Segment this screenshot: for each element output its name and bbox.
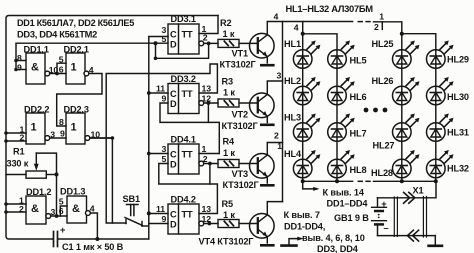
svg-text:К выв. 7: К выв. 7 (284, 210, 320, 220)
svg-text:TT: TT (182, 30, 193, 40)
node DD2.1 input junction (55, 72, 59, 76)
wire DD2.2 pin 2 (6, 140, 26, 142)
svg-text:C: C (170, 210, 177, 220)
svg-text:HL27: HL27 (373, 141, 395, 151)
svg-text:КТ3102Г: КТ3102Г (223, 180, 260, 190)
flip-flop DD3.2 (168, 84, 199, 114)
wire X1 column line (282, 22, 284, 202)
resistor R4 1k (218, 160, 258, 168)
svg-text:9: 9 (60, 129, 65, 139)
gate DD2.3 (66, 113, 85, 144)
wire DD2.2 pin 1 (6, 132, 26, 134)
svg-text:VT2: VT2 (232, 110, 248, 120)
LED HL2 (293, 77, 320, 105)
node DD3.1 pin2 junction (207, 42, 211, 46)
LED HL31 (427, 114, 454, 142)
svg-text:HL28: HL28 (371, 168, 393, 178)
svg-text:1 к: 1 к (223, 210, 235, 220)
node clock / SB1 junction (147, 211, 151, 215)
flip-flop DD3.1 (168, 24, 199, 54)
wire DD2.1 output to DD2.3 pin8 (57, 74, 102, 127)
wire LED column 2 (336, 50, 338, 181)
svg-text:КТ3102Г: КТ3102Г (222, 121, 259, 131)
wire branch to column 4 (402, 34, 436, 50)
svg-text:5: 5 (59, 197, 64, 207)
connector X1 contact minus (407, 230, 418, 241)
wire DD3.1 pin1 Q to top rail (199, 16, 218, 34)
svg-text:HL25: HL25 (372, 39, 394, 49)
svg-text:TT: TT (182, 210, 193, 220)
node DD1.1 pin8 tap (14, 59, 18, 63)
wire DD3.1 pin2 Q-bar to R2 (204, 42, 218, 44)
wire DD1.2 output to DD1.3 pin6 (51, 215, 67, 217)
node DD1.3 output to bottom rail (95, 237, 99, 241)
svg-text:DD1.1: DD1.1 (24, 44, 49, 54)
wire supply arrow K vyv 14 (303, 181, 316, 189)
resistor R2 1k (218, 39, 258, 47)
transistor VT3 (249, 154, 274, 186)
wire DD4.1 pin3 C (149, 153, 168, 155)
transistor VT2 (249, 93, 274, 125)
wire toggle loop DD3.1 (156, 43, 209, 58)
svg-text:DD4.1: DD4.1 (171, 135, 196, 145)
svg-text:DD3, DD4 К561ТМ2: DD3, DD4 К561ТМ2 (17, 29, 97, 40)
svg-text:10: 10 (91, 130, 101, 140)
flip-flop DD4.1 (168, 144, 199, 174)
wire top bus dashes (358, 21, 370, 23)
svg-text:2: 2 (19, 204, 24, 214)
wire DD1.1 pin 9 (16, 69, 26, 71)
wire DD3.2 pin9 D from DD4.1 Q (160, 103, 219, 154)
svg-text:HL7: HL7 (350, 129, 367, 139)
gate DD1.2 (26, 196, 46, 224)
node clock tap DD4.1 (147, 152, 151, 156)
svg-text:8: 8 (17, 53, 22, 63)
wire DD2.3 output (90, 137, 113, 139)
node DD3.2 pin12 junction (207, 101, 211, 105)
svg-text:DD1.3: DD1.3 (60, 187, 85, 197)
LED HL26 (393, 77, 420, 105)
svg-text:DD2.2: DD2.2 (24, 104, 49, 114)
LED HL25 (393, 41, 420, 69)
wire bottom bus left segment (303, 180, 353, 182)
svg-text:D: D (170, 40, 177, 50)
svg-text:GB1 9 В: GB1 9 В (334, 213, 369, 223)
svg-text:DD3.2: DD3.2 (171, 74, 196, 84)
wire LED column 1 (302, 22, 304, 182)
LED HL29 (427, 41, 454, 69)
svg-text:C: C (170, 150, 177, 160)
wire DD4.1 pin5 D toggle loop (159, 164, 210, 185)
node clock tap DD3.2 (147, 91, 151, 95)
svg-text:HL6: HL6 (350, 92, 367, 102)
svg-text:1: 1 (277, 141, 282, 151)
LED HL28 (393, 150, 420, 178)
svg-text:1 к: 1 к (223, 148, 235, 158)
svg-text:2: 2 (20, 133, 25, 143)
svg-text:330 к: 330 к (7, 159, 29, 169)
svg-text:HL3: HL3 (284, 113, 301, 123)
wire DD4.2 pin12 Q-bar to R5 (204, 223, 218, 225)
svg-text:3: 3 (162, 144, 167, 154)
svg-text:4: 4 (294, 23, 299, 33)
node DD4.2 pin12 junction (207, 222, 211, 226)
wire top bus right segment (374, 22, 402, 34)
LED HL5 (328, 41, 355, 69)
svg-text:DD2.3: DD2.3 (64, 104, 89, 114)
connector X1 mating lines (394, 197, 426, 238)
svg-text:9: 9 (162, 94, 167, 104)
node bottom bus col2 (335, 179, 339, 183)
svg-text:3: 3 (50, 130, 55, 140)
LED HL30 (427, 77, 454, 105)
wire VT3 collector to X1 line (267, 143, 282, 156)
resistor R3 1k (218, 99, 258, 107)
svg-text:1: 1 (379, 12, 384, 22)
svg-text:6: 6 (59, 65, 64, 75)
svg-text:5: 5 (162, 154, 167, 164)
wire X1 minus lead (378, 235, 436, 237)
node DD1.2 out / R1 junction (55, 214, 59, 218)
svg-text:HL8: HL8 (350, 165, 367, 175)
svg-text:2: 2 (203, 33, 208, 43)
wire DD2.1 pin 5 stub (57, 63, 66, 73)
svg-text:DD1-DD4,: DD1-DD4, (284, 222, 325, 232)
svg-text:HL30: HL30 (447, 92, 469, 102)
LED HL8 (328, 150, 355, 178)
svg-text:D: D (170, 99, 177, 109)
wire DD4.2 pin11 C (149, 213, 168, 215)
svg-text:1 к: 1 к (223, 29, 235, 39)
wire DD3.2 Q-bar riser to D line (207, 103, 209, 122)
LED HL3 (293, 114, 320, 142)
wire X1 plus lead (378, 181, 437, 198)
transistor VT4 (249, 214, 274, 246)
svg-text:DD1–DD4: DD1–DD4 (327, 199, 369, 209)
wire DD1.3 pin 5 stub (60, 206, 67, 216)
wire DD4.2 pin9 D (149, 223, 168, 225)
node DD1.2 pin2 tap (4, 210, 8, 214)
wire clock bus vertical (149, 37, 168, 240)
svg-text:DD1 К561ЛА7, DD2 К561ЛЕ5: DD1 К561ЛА7, DD2 К561ЛЕ5 (17, 17, 134, 28)
ellipsis dots between columns (364, 108, 388, 113)
svg-text:DD1.2: DD1.2 (26, 187, 51, 197)
svg-text:C: C (170, 30, 177, 40)
svg-text:VT1: VT1 (232, 49, 248, 59)
wire DD1.3 output to C1 node (90, 213, 98, 239)
svg-text:DD3, DD4: DD3, DD4 (317, 244, 359, 253)
svg-text:1: 1 (71, 62, 77, 74)
LED HL7 (328, 114, 355, 142)
node DD1.1 pin9 tap (14, 68, 18, 72)
svg-text:1: 1 (31, 122, 37, 134)
svg-text:1: 1 (202, 144, 207, 154)
svg-text:R5: R5 (222, 199, 233, 209)
LED HL4 (293, 150, 320, 178)
wire stub pin2 (381, 22, 383, 30)
battery GB1 (372, 198, 387, 236)
wire DD1.2 pin 2 (6, 211, 26, 213)
LED HL1 (293, 41, 320, 69)
svg-text:HL2: HL2 (284, 76, 301, 86)
svg-text:VT3: VT3 (232, 169, 248, 179)
wire D-line to DD3.1 pin5 (16, 43, 168, 69)
node bottom bus col3 (400, 179, 404, 183)
svg-text:R3: R3 (222, 77, 233, 87)
node column1 branch (301, 32, 305, 36)
svg-text:выв. 4, 6, 8, 10: выв. 4, 6, 8, 10 (302, 233, 365, 243)
svg-text:2: 2 (203, 154, 208, 164)
node DD2.2 pin1 tap (4, 131, 8, 135)
svg-text:11: 11 (156, 204, 165, 214)
wire DD3.2 pin11 C (149, 92, 168, 94)
svg-text:TT: TT (182, 150, 193, 160)
svg-text:4: 4 (90, 204, 95, 214)
wire R1 to DD1.2 output node (56, 175, 58, 217)
svg-text:5: 5 (59, 55, 64, 65)
svg-text:&: & (31, 203, 39, 215)
gate DD1.3 (67, 196, 87, 223)
LED HL6 (328, 77, 355, 105)
svg-text:13: 13 (202, 84, 212, 94)
ground left common arrow (289, 239, 300, 245)
gate DD1.1 (26, 53, 45, 84)
wire VT1 collector to LED bus (267, 22, 352, 35)
svg-text:HL4: HL4 (284, 149, 302, 159)
svg-text:9: 9 (17, 63, 22, 73)
svg-text:VT4 КТ3102Г: VT4 КТ3102Г (199, 237, 255, 247)
wire VT4 collector to X1 line (267, 202, 282, 215)
capacitor C1 (54, 232, 58, 247)
svg-text:HL1–HL32 АЛ307БМ: HL1–HL32 АЛ307БМ (286, 3, 374, 14)
wire LED column 3 (401, 34, 403, 182)
svg-text:3: 3 (277, 71, 282, 81)
gate DD2.2 (26, 113, 45, 144)
LED HL32 (427, 150, 454, 178)
wire DD2.2 output to DD2.3 pin9 (50, 137, 66, 139)
svg-text:X1: X1 (413, 186, 424, 196)
wire bottom bus right segment (374, 180, 436, 182)
svg-text:1: 1 (71, 122, 77, 134)
pushbutton SB1 (125, 205, 149, 227)
node DD2.2 pin2 tap (4, 139, 8, 143)
svg-text:2: 2 (374, 22, 379, 32)
svg-text:КТ3102Г: КТ3102Г (220, 60, 257, 70)
node DD4.1 pin2 junction (208, 162, 212, 166)
svg-text:+: + (60, 225, 65, 235)
wire LED column 4 (435, 50, 437, 181)
svg-text:6: 6 (59, 206, 64, 216)
svg-text:11: 11 (156, 84, 165, 94)
node bottom bus col1 (301, 179, 305, 183)
svg-text:8: 8 (59, 117, 64, 127)
wire bottom rail right of C1 (58, 238, 149, 240)
wire DD1.1 output to DD2.1 pin6 (50, 73, 66, 75)
node bottom bus col4 (434, 179, 438, 183)
svg-text:+: + (381, 199, 386, 209)
node R1 wiper junction (55, 173, 59, 177)
node column3 branch (400, 32, 404, 36)
svg-text:–: – (384, 223, 389, 233)
svg-text:HL1: HL1 (284, 39, 301, 49)
wire DD2.3 output down to SB1 (89, 138, 113, 223)
svg-text:DD2.1: DD2.1 (64, 44, 89, 54)
wire VT2 collector to X1 line (267, 81, 282, 95)
wire DD4.1 pin1 Q (199, 153, 219, 155)
svg-text:R4: R4 (223, 137, 235, 147)
svg-text:HL31: HL31 (447, 128, 469, 138)
svg-text:TT: TT (182, 89, 193, 99)
svg-text:HL32: HL32 (447, 164, 469, 174)
svg-text:К выв. 14: К выв. 14 (323, 188, 365, 198)
svg-text:4: 4 (89, 65, 94, 75)
svg-text:C: C (170, 89, 177, 99)
connector X1 contact plus (404, 192, 415, 203)
svg-text:&: & (72, 203, 80, 215)
wire DD1.2 pin 1 (6, 203, 26, 205)
svg-text:D: D (170, 220, 177, 230)
svg-text:D: D (170, 160, 177, 170)
ground right (434, 236, 436, 245)
svg-text:R2: R2 (220, 18, 231, 28)
wire bottom bus dashes (358, 180, 370, 182)
resistor R5 1k (218, 220, 258, 228)
svg-text:9: 9 (162, 214, 167, 224)
svg-text:DD4.2: DD4.2 (171, 195, 196, 205)
svg-text:5: 5 (162, 34, 167, 44)
svg-text:HL5: HL5 (350, 56, 367, 66)
wire DD1.1 pin 8 (16, 60, 26, 62)
node loop tap (154, 57, 158, 61)
transistor VT1 (249, 33, 274, 65)
svg-text:HL29: HL29 (447, 55, 469, 65)
svg-text:1 к: 1 к (223, 88, 235, 98)
svg-text:R1: R1 (13, 147, 24, 157)
svg-text:4: 4 (274, 12, 279, 22)
node DD1.2 pin1 tap (4, 202, 8, 206)
node DD2.3 out junction (111, 136, 115, 140)
wire DD4.1 pin2 Q-bar to R4 (204, 163, 218, 165)
svg-text:DD3.1: DD3.1 (171, 14, 196, 24)
svg-text:&: & (31, 62, 39, 74)
wire DD4.2 pin13 Q riser (199, 184, 217, 214)
svg-text:HL26: HL26 (372, 76, 394, 86)
svg-text:SB1: SB1 (123, 194, 140, 204)
svg-text:С1 1 мк × 50 В: С1 1 мк × 50 В (62, 242, 124, 252)
resistor R1 (6, 153, 57, 178)
svg-text:13: 13 (202, 204, 212, 214)
LED HL27 (393, 114, 420, 142)
wire top feedback rail (6, 16, 218, 240)
gate DD2.1 (66, 53, 85, 84)
wire DD3.2 pin13 feedback to SB1 column (106, 64, 217, 223)
flip-flop DD4.2 (168, 204, 199, 234)
svg-text:2: 2 (274, 131, 279, 141)
node D-line junction (154, 41, 158, 45)
wire DD3.2 pin12 Q-bar to R3 (204, 102, 218, 104)
wire branch to column 2 (303, 34, 337, 50)
